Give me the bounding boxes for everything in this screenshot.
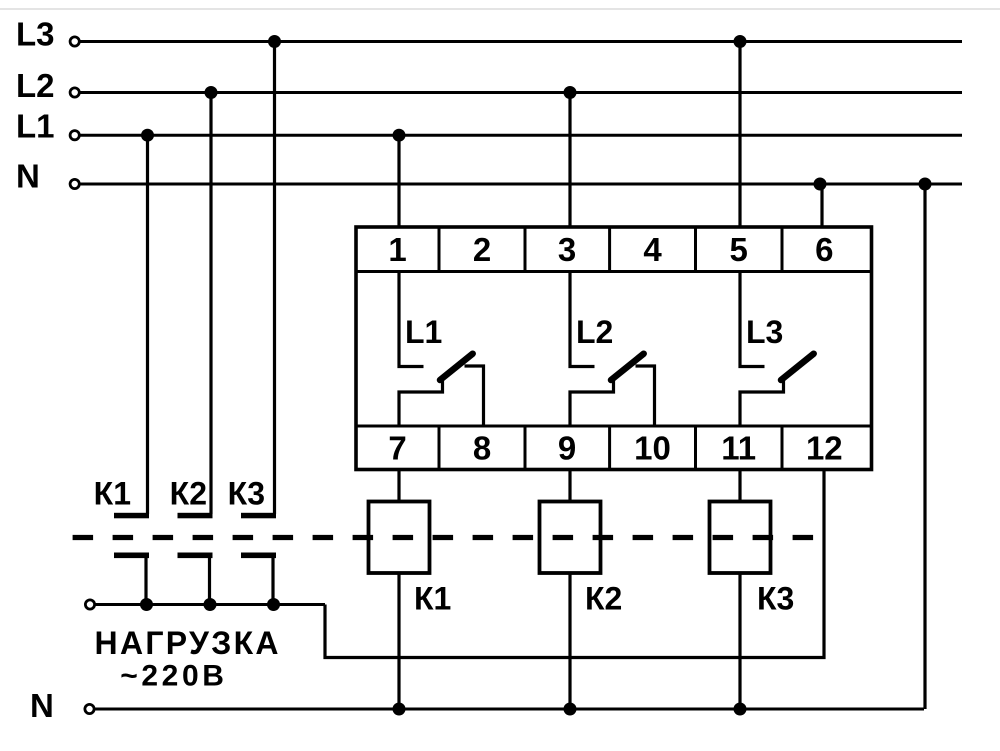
wire L2 to contact K2 <box>209 93 212 515</box>
svg-text:L2: L2 <box>16 67 55 104</box>
wire N bus <box>81 183 963 186</box>
svg-text:12: 12 <box>806 430 843 467</box>
wire pin7 to coil K1 <box>397 470 400 503</box>
terminal dividers bottom row <box>439 426 782 470</box>
junction L2/K2 <box>205 86 218 99</box>
svg-text:N: N <box>16 158 40 195</box>
contactor contact K3 upper bar <box>241 513 276 519</box>
relay contact S1 fixed to pin8 <box>465 366 484 426</box>
junction K2 contact/load line <box>204 598 217 611</box>
contactor contact K2 lower bar <box>178 553 213 559</box>
relay contact S1 arm <box>440 354 473 380</box>
wire contact K3 to load <box>271 558 274 605</box>
svg-text:3: 3 <box>558 231 576 268</box>
wire load line <box>96 603 326 606</box>
wire L1 to contact K1 <box>146 135 149 514</box>
junction N/pin6 <box>814 178 827 191</box>
svg-text:К1: К1 <box>94 476 131 512</box>
wire L1 to pin 1 <box>397 135 400 228</box>
wire coil K3 to N <box>738 573 741 709</box>
svg-text:2: 2 <box>473 231 491 268</box>
wire load return to pin12 <box>325 470 824 658</box>
svg-text:К3: К3 <box>228 476 265 512</box>
terminal N bottom <box>85 704 94 713</box>
relay U1 terminal row top <box>356 270 872 273</box>
wire coil K2 to N <box>568 573 571 709</box>
relay contact S2 arm <box>611 354 644 380</box>
svg-text:К2: К2 <box>170 476 207 512</box>
relay U1 outline <box>356 227 872 470</box>
contactor contact K3 lower bar <box>241 553 276 559</box>
terminal L2 <box>70 88 79 97</box>
svg-text:11: 11 <box>721 430 756 467</box>
wire L2 bus <box>81 91 963 94</box>
wire N bottom bus <box>95 708 924 711</box>
mechanical link dashed line <box>73 535 814 540</box>
contactor contact K1 lower bar <box>114 553 149 559</box>
relay contact S3 arm <box>781 354 814 380</box>
wire L3 bus <box>81 40 963 43</box>
svg-text:4: 4 <box>643 231 662 268</box>
junction L3/K3 <box>268 35 281 48</box>
svg-text:10: 10 <box>634 430 671 467</box>
relay contact S2 fixed to pin10 <box>636 366 655 426</box>
wire L3 to contact K3 <box>273 42 276 515</box>
coil K1 <box>369 502 430 574</box>
terminal L3 <box>70 37 79 46</box>
svg-text:8: 8 <box>473 430 491 467</box>
terminal L1 <box>70 131 79 140</box>
relay contact S2 common from pin9 <box>570 380 614 427</box>
wire pin11 to coil K3 <box>738 470 741 503</box>
junction L3/pin5 <box>734 35 747 48</box>
relay contact S2 fixed from pin3 <box>570 272 595 367</box>
svg-text:L1: L1 <box>16 108 55 145</box>
svg-text:1: 1 <box>388 231 406 268</box>
svg-text:L2: L2 <box>576 314 613 350</box>
relay contact S1 fixed from pin1 <box>399 272 424 367</box>
terminal N <box>70 179 79 188</box>
junction K2/N <box>564 703 577 716</box>
wire pin9 to coil K2 <box>568 470 571 503</box>
junction N/right drop <box>919 178 932 191</box>
junction L1/K1 <box>141 129 154 142</box>
coil K2 <box>540 502 601 574</box>
svg-text:L1: L1 <box>405 314 442 350</box>
svg-text:N: N <box>30 687 54 724</box>
wire contact K1 to load <box>144 558 147 605</box>
wire coil K1 to N <box>397 573 400 709</box>
wire L1 bus <box>81 134 963 137</box>
junction K1 contact/load line <box>140 598 153 611</box>
svg-text:L3: L3 <box>746 314 783 350</box>
junction K3/N <box>734 703 747 716</box>
wire contact K2 to load <box>208 558 211 605</box>
svg-text:~220В: ~220В <box>120 660 227 693</box>
relay contact S1 common from pin7 <box>399 380 443 427</box>
terminal dividers top row <box>439 227 782 272</box>
junction L2/pin3 <box>564 86 577 99</box>
junction L1/pin1 <box>393 129 406 142</box>
contactor contact K1 upper bar <box>114 513 149 519</box>
svg-text:6: 6 <box>815 231 833 268</box>
wire L2 to pin 3 <box>568 93 571 229</box>
svg-text:7: 7 <box>388 430 406 467</box>
junction K1/N <box>393 703 406 716</box>
svg-text:К3: К3 <box>757 581 794 617</box>
svg-text:9: 9 <box>558 430 576 467</box>
svg-text:К1: К1 <box>414 581 451 617</box>
svg-text:L3: L3 <box>16 16 55 53</box>
relay U1 terminal row bottom <box>356 425 872 428</box>
wire N to pin 6 <box>820 184 823 228</box>
contactor contact K2 upper bar <box>178 513 213 519</box>
junction K3 contact/load line <box>267 598 280 611</box>
svg-text:5: 5 <box>730 231 748 268</box>
wire L3 to pin 5 <box>738 42 741 229</box>
wire N right drop <box>923 184 926 709</box>
terminal load phase <box>85 600 94 609</box>
relay contact S3 fixed from pin5 <box>740 272 765 367</box>
relay contact S3 common from pin11 <box>740 380 784 427</box>
coil K3 <box>710 502 771 574</box>
svg-text:К2: К2 <box>585 581 622 617</box>
svg-text:НАГРУЗКА: НАГРУЗКА <box>95 625 281 661</box>
